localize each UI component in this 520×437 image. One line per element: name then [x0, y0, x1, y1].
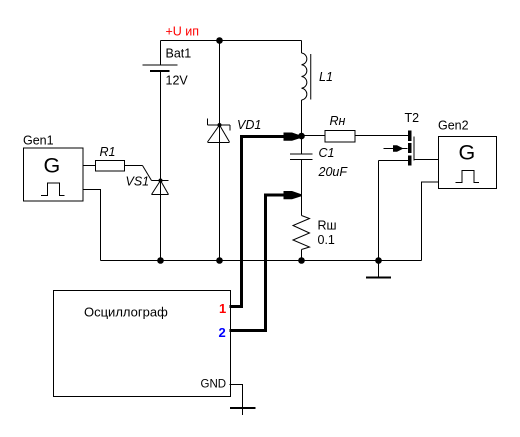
wire GND pin: [230, 385, 243, 416]
svg-text:Gen2: Gen2: [438, 119, 469, 133]
node junction top rail / VD1 branch: [216, 37, 223, 44]
wire T2 source to bottom rail: [378, 161, 380, 261]
pulse symbol Gen1: [41, 183, 65, 196]
svg-text:G: G: [44, 154, 61, 178]
node junction bottom rail Rш branch: [298, 257, 305, 264]
wire C1 to Rш: [301, 160, 303, 216]
svg-text:Bat1: Bat1: [166, 47, 192, 61]
ground oscilloscope: [230, 407, 256, 409]
svg-text:Rш: Rш: [318, 219, 337, 233]
wire VD1 branch: [219, 41, 221, 261]
diode VD1: [208, 119, 231, 143]
ground: [366, 261, 391, 278]
svg-text:Gen1: Gen1: [23, 134, 54, 148]
svg-text:12V: 12V: [166, 74, 189, 88]
svg-text:T2: T2: [405, 111, 420, 125]
wire Gen1 pin1 to R1: [83, 165, 96, 167]
probe 1 arrowhead: [284, 133, 302, 141]
wire probe 1 oscilloscope channel 1: [230, 137, 285, 307]
wire T2 source: [379, 160, 409, 162]
generator Gen1 box: [24, 148, 84, 201]
battery Bat1: [143, 65, 178, 71]
svg-text:+U ип: +U ип: [166, 25, 200, 39]
wire node A to Rн: [302, 135, 325, 137]
svg-text:C1: C1: [319, 146, 335, 160]
svg-text:2: 2: [219, 325, 226, 340]
pulse symbol Gen2: [456, 171, 480, 183]
inductor L1: [302, 53, 311, 100]
wire Rн to T2 drain: [355, 135, 408, 137]
svg-text:20uF: 20uF: [318, 165, 349, 179]
wire probe 2 oscilloscope channel 2: [230, 195, 285, 331]
wire R1 to VS1 gate: [125, 166, 152, 181]
transistor T2: [384, 131, 415, 166]
wire Rш to bottom rail: [301, 250, 303, 261]
thyristor VS1: [152, 179, 169, 195]
wire bottom rail: [101, 260, 422, 262]
svg-text:VD1: VD1: [237, 118, 261, 132]
wire Gen1 pin2 to bottom rail: [83, 190, 101, 261]
wire battery to VS1 to bottom rail: [160, 71, 162, 261]
wire battery top lead: [160, 41, 162, 66]
svg-text:Rн: Rн: [330, 114, 346, 128]
resistor Rш: [293, 216, 310, 250]
wire L1 top lead: [301, 41, 303, 54]
resistor Rн: [325, 131, 355, 143]
node A junction L1/C1/Rн/probe1: [298, 133, 305, 140]
capacitor C1: [290, 154, 313, 160]
svg-text:R1: R1: [100, 145, 116, 159]
oscilloscope box: [54, 291, 231, 397]
node junction bottom rail VD1 branch: [216, 257, 223, 264]
svg-text:GND: GND: [201, 379, 227, 391]
wire L1 bottom lead to node A: [301, 100, 303, 154]
wire Gen2 pin2 to bottom rail: [422, 182, 439, 261]
svg-text:Осциллограф: Осциллограф: [84, 305, 168, 320]
node junction bottom rail VS1 branch: [157, 257, 164, 264]
generator Gen2 box: [439, 137, 497, 189]
node junction bottom rail ground: [375, 257, 382, 264]
wire T2 gate to Gen2: [414, 159, 439, 161]
resistor R1: [96, 161, 125, 172]
svg-text:VS1: VS1: [126, 175, 150, 189]
svg-text:L1: L1: [319, 70, 333, 84]
svg-text:0.1: 0.1: [318, 233, 335, 247]
svg-text:1: 1: [219, 301, 226, 316]
wire top rail: [161, 40, 302, 42]
probe 2 arrowhead: [284, 191, 302, 199]
svg-text:G: G: [459, 141, 476, 165]
